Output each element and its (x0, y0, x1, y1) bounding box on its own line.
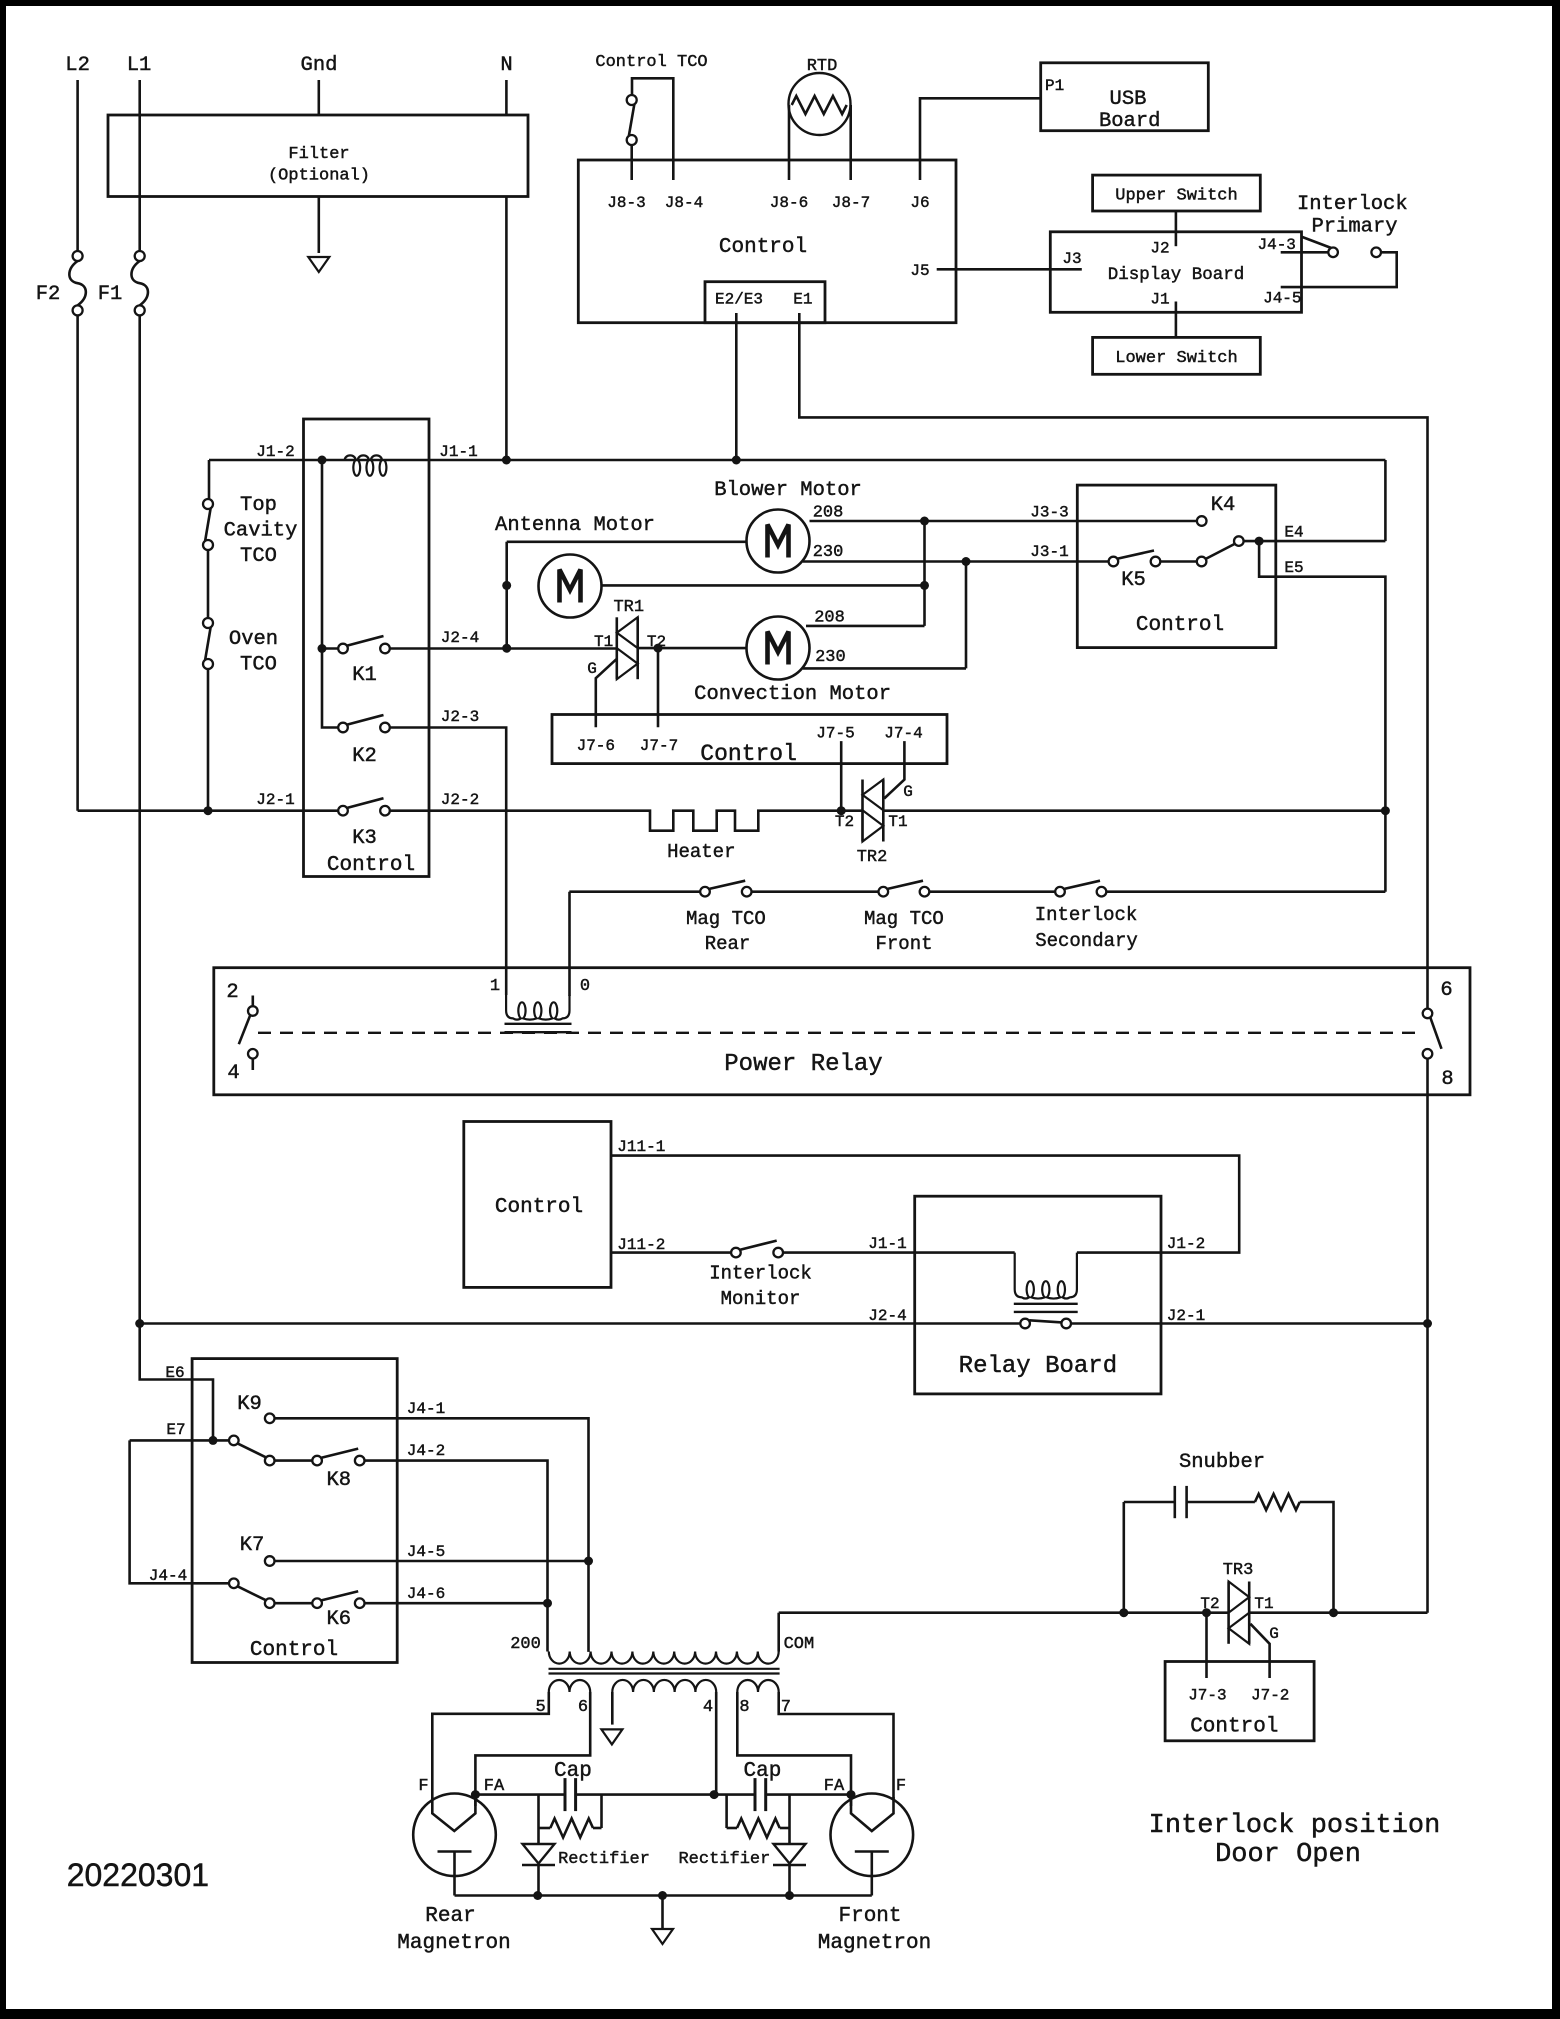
svg-text:TR1: TR1 (613, 598, 644, 617)
svg-text:Rectifier: Rectifier (558, 1850, 650, 1869)
svg-text:Power Relay: Power Relay (724, 1051, 882, 1078)
svg-text:Interlock position: Interlock position (1149, 1811, 1441, 1841)
resistor bleed front (727, 1795, 790, 1838)
relay coil on J1 row (345, 455, 387, 475)
contact K9 (265, 1414, 275, 1424)
triac TR1 (617, 617, 638, 679)
switch K1 (338, 636, 390, 653)
junction J2-1 rail (1423, 1319, 1432, 1328)
switch K8 (312, 1449, 364, 1466)
selector common K6/K7 (229, 1579, 239, 1589)
center winding (612, 1680, 716, 1692)
motor Blower (747, 510, 810, 573)
svg-text:J1-1: J1-1 (439, 443, 477, 461)
wire winding6 leg (475, 1692, 590, 1795)
magnetron front (831, 1794, 914, 1896)
wire Gnd stub (317, 80, 320, 115)
switch Top Cavity TCO (203, 499, 213, 550)
switch Interlock Secondary (1055, 881, 1106, 897)
svg-text:J1-2: J1-2 (1167, 1235, 1205, 1253)
switch K2 (338, 715, 390, 732)
wire ground stem (661, 1896, 664, 1929)
svg-text:Primary: Primary (1311, 216, 1397, 239)
wire convection 208 (806, 625, 925, 628)
junction 208 rail (920, 517, 929, 526)
display board box (1050, 232, 1301, 312)
svg-text:(Optional): (Optional) (268, 167, 370, 186)
wire TR2 T1 to E5 rail (883, 809, 1385, 812)
svg-text:Rear: Rear (705, 933, 751, 955)
svg-text:Antenna Motor: Antenna Motor (495, 514, 655, 537)
wire J11-1 to relay board J1-2 (611, 1156, 1239, 1253)
relay board coil (1015, 1253, 1077, 1299)
svg-text:T2: T2 (1200, 1595, 1219, 1613)
capacitor Cap rear (564, 1778, 567, 1811)
junction J4-1/J4-5 (584, 1557, 593, 1566)
wire 208 rail vertical (923, 521, 926, 626)
svg-text:COM: COM (784, 1635, 815, 1654)
svg-text:J1-2: J1-2 (256, 443, 294, 461)
relay board contact (1020, 1319, 1071, 1329)
svg-text:K6: K6 (326, 1608, 351, 1631)
svg-text:T1: T1 (594, 633, 613, 651)
wire blower left lead (507, 540, 747, 543)
wire center winding ground leg (611, 1692, 614, 1725)
svg-text:Control: Control (1136, 614, 1224, 637)
wire interlock secondary to E5 rail (1106, 890, 1385, 893)
svg-text:J3: J3 (1062, 250, 1081, 268)
svg-text:J3-3: J3-3 (1030, 504, 1068, 522)
svg-text:K8: K8 (326, 1469, 351, 1492)
svg-text:Door Open: Door Open (1215, 1840, 1361, 1870)
svg-text:Heater: Heater (667, 841, 735, 863)
svg-text:J2-1: J2-1 (256, 791, 294, 809)
junction TCO on J2-1 wire (204, 806, 213, 815)
motor rail vertical (505, 542, 508, 648)
svg-text:Cap: Cap (743, 1760, 781, 1783)
junction snubber left (1119, 1608, 1128, 1617)
svg-text:P1: P1 (1045, 77, 1064, 95)
wire L1 vertical (138, 80, 141, 251)
wire interlock primary to J4-5 (1281, 252, 1397, 287)
svg-text:J2: J2 (1150, 239, 1169, 257)
wire J7-4 to TR2 gate (884, 741, 904, 798)
motor Antenna (539, 555, 602, 618)
svg-text:Mag TCO: Mag TCO (864, 908, 944, 930)
svg-text:K2: K2 (352, 745, 377, 768)
wire RTD leg J8-6 (788, 105, 791, 180)
selector contact (1197, 557, 1207, 567)
wire pin 8 down to J2-1/COM (1426, 1058, 1429, 1612)
wire J11-2 to interlock monitor (611, 1251, 731, 1254)
svg-text:J3-1: J3-1 (1030, 543, 1068, 561)
RTD resistor circle (789, 73, 851, 135)
junction J7-5 T2 (837, 806, 846, 815)
svg-text:E4: E4 (1284, 524, 1303, 542)
svg-text:J4-6: J4-6 (407, 1585, 445, 1603)
svg-text:Control: Control (495, 1196, 583, 1219)
svg-text:F2: F2 (36, 283, 61, 306)
junction rectifier rear (533, 1891, 542, 1900)
junction antenna on 208 rail (920, 581, 929, 590)
svg-text:Control TCO: Control TCO (595, 53, 707, 72)
lower switch box (1093, 337, 1261, 374)
control box J11 (464, 1122, 611, 1288)
wire FA front lead (850, 1795, 853, 1806)
wire interlock monitor to relay board J1-1 (783, 1251, 1015, 1254)
capacitor snubber (1174, 1486, 1177, 1518)
power relay box (214, 968, 1470, 1095)
wire between mag TCOs (751, 890, 879, 893)
selector common K8/K9 (229, 1436, 239, 1446)
svg-text:Rectifier: Rectifier (678, 1850, 770, 1869)
svg-text:J4-1: J4-1 (407, 1400, 445, 1418)
wire 208 / J3-3 (810, 520, 1198, 523)
svg-text:Magnetron: Magnetron (818, 1932, 931, 1955)
page border frame (0, 0, 1560, 6)
svg-text:FA: FA (484, 1777, 505, 1796)
triac TR3 (1229, 1582, 1250, 1644)
contact K4 (1197, 516, 1207, 526)
USB board box (1041, 63, 1209, 131)
wire convection 230 (803, 667, 966, 670)
svg-text:L1: L1 (127, 54, 152, 77)
svg-text:J4-5: J4-5 (1263, 290, 1301, 308)
filter box (108, 115, 528, 197)
svg-text:J7-6: J7-6 (577, 737, 615, 755)
switch Mag TCO Rear (700, 881, 751, 897)
transformer core lines (549, 1668, 780, 1670)
junction FA front (847, 1790, 856, 1799)
selector pivot (1234, 536, 1244, 546)
svg-text:E6: E6 (165, 1364, 184, 1382)
fuse F2 (69, 251, 86, 315)
svg-text:Interlock: Interlock (709, 1263, 812, 1285)
contact K6 chain first (265, 1598, 275, 1608)
junction 230 rail (962, 557, 971, 566)
svg-text:J7-7: J7-7 (640, 737, 678, 755)
wire N-rail drop to E4 (1384, 460, 1387, 541)
svg-text:6: 6 (578, 1698, 588, 1717)
wire 230 rail vertical (965, 562, 968, 669)
wire J7-7 to T2 (657, 648, 660, 727)
ground symbol under filter (308, 257, 329, 272)
wire E7 to J4-4 loop (130, 1440, 230, 1583)
wire J4-6 (364, 1602, 547, 1605)
wire control TCO to J8-3 (630, 145, 633, 180)
power relay coil (506, 995, 569, 1020)
svg-text:J4-5: J4-5 (407, 1543, 445, 1561)
svg-text:Display Board: Display Board (1108, 265, 1245, 285)
wire magnetron cathode rail (455, 1894, 872, 1897)
svg-text:G: G (903, 783, 913, 801)
junction J7-7 tap (654, 644, 663, 653)
wire winding5 leg (432, 1692, 549, 1806)
junction E4/E5 (1255, 537, 1264, 546)
svg-text:Control: Control (250, 1639, 338, 1662)
svg-text:Top: Top (240, 494, 277, 517)
svg-text:Gnd: Gnd (301, 54, 338, 77)
svg-text:J2-4: J2-4 (441, 629, 479, 647)
svg-text:Interlock: Interlock (1035, 904, 1138, 926)
wire K6 link (274, 1602, 312, 1605)
svg-text:L2: L2 (65, 54, 90, 77)
svg-text:K4: K4 (1211, 494, 1236, 517)
transformer primary winding (549, 1652, 779, 1664)
wire J2-4 to TR1 (390, 647, 617, 650)
wire winding7 leg (779, 1692, 894, 1806)
junction J1-2 coil tap (318, 456, 327, 465)
wire J4-3 stub (1281, 251, 1329, 254)
junction K1 tap (318, 644, 327, 653)
svg-text:TR3: TR3 (1223, 1561, 1254, 1580)
switch Control TCO (627, 95, 637, 145)
filament winding rear (549, 1680, 590, 1692)
svg-text:4: 4 (227, 1062, 239, 1085)
contact K7 (265, 1556, 275, 1566)
wire J2-4 long (140, 1322, 1021, 1325)
snubber network (1124, 1486, 1334, 1613)
wire J6 to USB board (920, 98, 1041, 180)
wire N stub (505, 80, 508, 115)
fuse F1 (131, 251, 148, 315)
control box bottom right (1165, 1662, 1314, 1741)
svg-text:Upper Switch: Upper Switch (1115, 187, 1237, 206)
svg-text:Convection Motor: Convection Motor (694, 683, 891, 706)
svg-text:K1: K1 (352, 664, 377, 687)
relay board box (915, 1196, 1161, 1394)
svg-text:K7: K7 (240, 1534, 265, 1557)
svg-text:USB: USB (1110, 88, 1147, 111)
wire L2 to J2-1 row (76, 315, 79, 810)
wire Gnd below filter (317, 197, 320, 254)
svg-text:Filter: Filter (288, 145, 349, 164)
svg-text:T2: T2 (835, 813, 854, 831)
svg-text:Relay Board: Relay Board (959, 1353, 1117, 1380)
svg-text:Control: Control (1190, 1716, 1278, 1739)
wire winding4 leg (715, 1692, 718, 1795)
wire J4-2 (364, 1461, 547, 1652)
wire antenna to 208 rail (602, 584, 924, 587)
power relay core lines (505, 1023, 572, 1025)
svg-text:Interlock: Interlock (1297, 193, 1408, 216)
wire COM leg (777, 1613, 780, 1652)
svg-text:J4-4: J4-4 (149, 1567, 187, 1585)
wire L1 to E6 (140, 1324, 213, 1441)
wire E1 to power relay pin 6 (799, 313, 1427, 1009)
wire J4-5 (274, 1560, 588, 1563)
junction rectifier front (785, 1891, 794, 1900)
wire 230 / J3-1 (803, 560, 1109, 563)
junction TR3 T2 tap (1202, 1608, 1211, 1617)
wire TR3 gate (1250, 1624, 1269, 1678)
wire J1-2 / J1-1 horizontal (209, 459, 1385, 462)
wire J5 to display board (937, 268, 1082, 271)
wire RTD leg J8-7 (849, 105, 852, 180)
switch Oven TCO (203, 618, 213, 669)
capacitor Cap front (754, 1778, 757, 1811)
junction N on J1-1 wire (502, 456, 511, 465)
svg-text:J4-2: J4-2 (407, 1442, 445, 1460)
filament winding front (737, 1680, 778, 1692)
svg-text:8: 8 (1441, 1068, 1453, 1091)
control box K1-K3 (304, 419, 430, 877)
wire TCO chain drop (208, 460, 211, 500)
wire J2-1 to power relay rail (1071, 1322, 1428, 1325)
switch K5 (1109, 551, 1161, 567)
svg-text:TCO: TCO (240, 654, 277, 677)
diode Rectifier front (773, 1828, 806, 1896)
wire K8 link (274, 1459, 312, 1462)
svg-text:Blower Motor: Blower Motor (714, 479, 862, 502)
svg-text:J1: J1 (1150, 291, 1169, 309)
wire FA rail front (766, 1793, 851, 1796)
svg-text:K3: K3 (352, 827, 377, 850)
svg-text:Secondary: Secondary (1035, 930, 1138, 952)
contact K8 chain first (265, 1456, 275, 1466)
wire oven TCO to J2-1 row (207, 669, 210, 811)
junction antenna tap (502, 581, 511, 590)
svg-text:20220301: 20220301 (67, 1857, 209, 1893)
svg-text:N: N (500, 54, 512, 77)
motor Convection (747, 617, 810, 680)
wire J7-5 to heater wire (840, 741, 843, 811)
magnetron rear (413, 1794, 496, 1896)
svg-text:6: 6 (1440, 979, 1452, 1002)
svg-text:E2/E3: E2/E3 (715, 290, 763, 308)
mechanical linkage dashed line (258, 1032, 1420, 1034)
svg-text:Front: Front (838, 1905, 901, 1928)
switch Interlock Primary (1301, 237, 1381, 258)
svg-text:J2-2: J2-2 (441, 791, 479, 809)
svg-text:208: 208 (813, 504, 844, 523)
ground symbol magnetron (652, 1929, 673, 1944)
selector arm (1206, 544, 1236, 559)
svg-text:J8-4: J8-4 (665, 194, 703, 212)
svg-text:Mag TCO: Mag TCO (686, 908, 766, 930)
wire FA rail mid (576, 1793, 755, 1796)
wire winding8 leg (737, 1692, 851, 1795)
svg-text:J7-2: J7-2 (1251, 1687, 1289, 1705)
svg-text:J8-6: J8-6 (770, 194, 808, 212)
svg-text:Board: Board (1099, 110, 1161, 133)
svg-text:230: 230 (813, 543, 844, 562)
switch Interlock Monitor (731, 1241, 783, 1258)
svg-text:Front: Front (875, 933, 932, 955)
control box mid (552, 715, 947, 764)
control board box (top) (578, 160, 956, 323)
svg-text:Rear: Rear (425, 1905, 475, 1928)
ground symbol transformer (601, 1729, 622, 1744)
terminal block E2/E3 E1 box (705, 282, 825, 323)
svg-text:230: 230 (815, 648, 846, 667)
svg-text:2: 2 (226, 981, 238, 1004)
svg-text:Cavity: Cavity (224, 520, 298, 543)
wire TR3 T2 to J7-3 (1205, 1613, 1208, 1678)
wire TR1 T2 to convection (638, 647, 747, 650)
wire E2/E3 down to J1-1 (735, 313, 738, 460)
svg-text:Control: Control (719, 236, 807, 259)
svg-text:J6: J6 (910, 194, 929, 212)
svg-text:E1: E1 (793, 290, 812, 308)
wire J2-1 (78, 809, 339, 812)
switch K3 (338, 798, 390, 815)
junction J2-4 / motor rail (502, 644, 511, 653)
svg-text:J7-3: J7-3 (1188, 1687, 1226, 1705)
svg-text:J8-3: J8-3 (607, 194, 645, 212)
junction snubber right (1329, 1608, 1338, 1617)
svg-text:J2-3: J2-3 (441, 708, 479, 726)
wire L1 down to J2-4 row (138, 315, 141, 1323)
wire TR1 gate (596, 659, 617, 728)
junction L1 / J2-4 (135, 1319, 144, 1328)
wire between TCOs (207, 550, 210, 619)
junction J4-2/J4-6 (543, 1599, 552, 1608)
wire K1 tap (322, 647, 339, 650)
switch K6 (312, 1591, 364, 1608)
wire J1 stub (1175, 302, 1178, 338)
wire K-chain vertical (322, 460, 339, 728)
wire E4 (1243, 540, 1385, 543)
svg-text:1: 1 (490, 977, 500, 996)
svg-text:Magnetron: Magnetron (397, 1932, 510, 1955)
svg-text:J8-7: J8-7 (832, 194, 870, 212)
wire FA rear lead (474, 1795, 477, 1806)
control box K4-K5 (1077, 485, 1276, 647)
wire relay coil pin 0 from Mag TCO row (568, 892, 571, 996)
svg-text:4: 4 (703, 1698, 713, 1717)
svg-text:Oven: Oven (229, 628, 278, 651)
svg-text:0: 0 (580, 977, 590, 996)
svg-text:Control: Control (700, 741, 797, 767)
svg-text:K5: K5 (1121, 569, 1146, 592)
wire E7 (130, 1439, 230, 1442)
wire control TCO bracket (632, 78, 673, 180)
junction E2/E3 on J1-1 wire (732, 456, 741, 465)
svg-text:Control: Control (327, 854, 415, 877)
selector arm K8/K9 (237, 1443, 266, 1457)
wire FA rail rear (475, 1793, 565, 1796)
power relay contact 6-8 (1423, 1009, 1442, 1059)
svg-text:F: F (896, 1777, 906, 1796)
wire L2 vertical (76, 80, 79, 251)
svg-text:TCO: TCO (240, 545, 277, 568)
svg-text:F: F (418, 1777, 428, 1796)
junction ground tap (658, 1891, 667, 1900)
diode Rectifier rear (522, 1828, 555, 1896)
junction FA rear (471, 1790, 480, 1799)
resistor snubber (1255, 1494, 1300, 1510)
wire J4-1 (274, 1418, 588, 1652)
svg-text:Lower Switch: Lower Switch (1115, 349, 1237, 368)
wire COM to TR3 T2 side (779, 1611, 1229, 1614)
wire J2 stub (1175, 211, 1178, 246)
junction heater/E5 rail (1381, 806, 1390, 815)
svg-text:T1: T1 (1254, 1595, 1273, 1613)
upper switch box (1093, 175, 1261, 211)
switch Mag TCO Front (879, 881, 930, 897)
junction E6/E7 (209, 1436, 218, 1445)
svg-text:J7-5: J7-5 (816, 724, 854, 742)
svg-text:G: G (1269, 1625, 1279, 1643)
svg-text:G: G (587, 660, 597, 678)
wire to interlock secondary (929, 890, 1056, 893)
wire K5 to selector (1160, 560, 1197, 563)
wire J2-2 heater run (390, 811, 863, 831)
svg-text:Snubber: Snubber (1179, 1451, 1265, 1474)
svg-text:J11-1: J11-1 (617, 1138, 665, 1156)
resistor bleed rear (539, 1795, 602, 1838)
